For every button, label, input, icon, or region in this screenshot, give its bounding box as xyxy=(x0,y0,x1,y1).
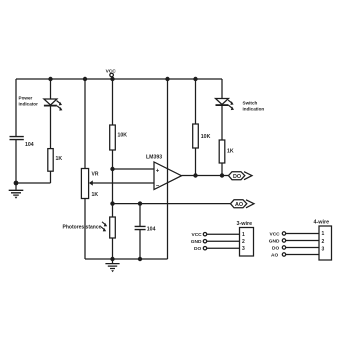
svg-text:1K: 1K xyxy=(56,156,63,162)
svg-text:LM393: LM393 xyxy=(146,154,162,160)
port AO arrow xyxy=(231,200,255,208)
svg-text:+: + xyxy=(156,169,160,175)
LED D1 power indicator xyxy=(44,99,57,106)
wire J1 GND xyxy=(203,240,239,243)
svg-text:2: 2 xyxy=(322,239,325,245)
connector J2 4-wire box xyxy=(319,226,332,260)
wire J2 GND xyxy=(282,239,319,242)
svg-text:3-wire: 3-wire xyxy=(237,221,253,227)
wire J1 DO xyxy=(203,247,239,250)
svg-text:3: 3 xyxy=(322,247,325,253)
wire op-amp supply vertical xyxy=(167,79,169,259)
svg-text:DO: DO xyxy=(233,174,241,180)
wire divider branch (VCC to ground through R2 and LDR) xyxy=(112,79,114,259)
wire J2 VCC xyxy=(282,232,319,235)
node C2 top xyxy=(138,201,142,205)
svg-text:−: − xyxy=(156,183,160,189)
svg-text:1: 1 xyxy=(242,232,245,238)
svg-text:GND: GND xyxy=(269,239,280,245)
resistor R1 xyxy=(48,149,53,172)
svg-text:VCC: VCC xyxy=(270,232,281,238)
wire J2 AO xyxy=(282,253,319,256)
svg-text:10K: 10K xyxy=(118,133,128,139)
LED D2 switch indication xyxy=(216,99,229,106)
svg-text:indication: indication xyxy=(243,107,265,112)
power symbol VCC xyxy=(106,68,117,76)
photoresistor LDR body xyxy=(110,217,116,238)
svg-text:DO: DO xyxy=(194,246,201,252)
wire potentiometer branch xyxy=(84,79,86,259)
wire AO line xyxy=(113,203,231,205)
node ground-left junction xyxy=(14,181,19,186)
wire left branch down to C1 and ground xyxy=(15,79,17,183)
wire pull-up branch xyxy=(195,79,197,176)
capacitor C2 xyxy=(135,204,146,259)
ground (left) xyxy=(9,183,24,199)
svg-text:1: 1 xyxy=(322,231,325,237)
svg-text:Switch: Switch xyxy=(243,100,258,105)
svg-text:VCC: VCC xyxy=(106,68,117,74)
node divider / plus-input tap xyxy=(110,167,114,171)
wire VCC top rail xyxy=(16,78,222,80)
LED D2 emission arrows xyxy=(228,100,234,110)
pin numbers J2 xyxy=(322,231,325,253)
svg-text:DO: DO xyxy=(272,246,279,252)
ground (center) xyxy=(105,259,119,272)
resistor R2 xyxy=(110,125,116,150)
wire power-indicator branch xyxy=(50,79,52,183)
labels J1 pins xyxy=(191,232,202,252)
labels J2 pins xyxy=(269,232,280,259)
svg-text:Photoresistance: Photoresistance xyxy=(63,225,102,231)
svg-text:1K: 1K xyxy=(227,148,234,154)
node C2 bottom xyxy=(138,257,142,261)
node rail/op-amp supply xyxy=(165,77,169,81)
LED D1 emission arrows xyxy=(57,101,63,111)
node divider / AO tap xyxy=(110,201,114,205)
port DO arrow xyxy=(229,172,253,180)
svg-text:VCC: VCC xyxy=(192,232,203,238)
pin numbers J1 xyxy=(242,232,245,252)
op-amp U1 LM393 xyxy=(154,162,182,190)
node rail/pot branch xyxy=(83,77,87,81)
potentiometer VR body xyxy=(81,169,88,199)
svg-text:1K: 1K xyxy=(92,192,99,198)
node rail/divider xyxy=(110,77,114,81)
svg-text:indicator: indicator xyxy=(19,102,39,107)
wire J2 DO xyxy=(282,246,319,249)
svg-text:10K: 10K xyxy=(201,134,211,140)
svg-text:Power: Power xyxy=(19,96,33,101)
node pull-up/output xyxy=(193,173,197,177)
photoresistor arrows xyxy=(101,222,107,232)
node LDR bottom / ground xyxy=(110,257,114,261)
svg-text:GND: GND xyxy=(191,239,202,245)
resistor R3 xyxy=(193,124,199,148)
node rail/pull-up xyxy=(193,77,197,81)
label Switch indication xyxy=(243,100,265,111)
label Power indicator xyxy=(19,96,39,107)
wire op-amp output xyxy=(182,175,229,177)
svg-text:104: 104 xyxy=(147,227,156,233)
svg-text:AO: AO xyxy=(235,202,243,208)
svg-text:3: 3 xyxy=(242,246,245,252)
svg-text:104: 104 xyxy=(25,142,34,148)
wire ground run to R1 bottom xyxy=(16,182,51,184)
wire J1 VCC xyxy=(203,233,239,236)
wire bottom ground run xyxy=(85,258,168,260)
svg-text:4-wire: 4-wire xyxy=(314,219,330,225)
node switch branch/output xyxy=(220,173,224,177)
wire to op-amp plus input xyxy=(113,168,155,170)
svg-text:AO: AO xyxy=(271,253,278,259)
potentiometer VR wiper arrow xyxy=(89,180,154,185)
capacitor C1 xyxy=(10,137,24,140)
connector J1 3-wire box xyxy=(240,228,254,257)
wire switch-indication branch xyxy=(221,79,223,176)
svg-text:2: 2 xyxy=(242,239,245,245)
svg-text:VR: VR xyxy=(92,172,99,178)
resistor R4 xyxy=(219,140,225,163)
node rail/power branch xyxy=(48,77,52,81)
